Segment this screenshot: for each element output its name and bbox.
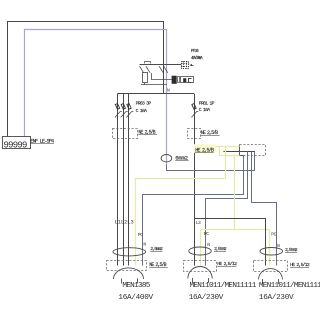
svg-text:PC: PC: [204, 231, 209, 237]
svg-text:PR63 3P: PR63 3P: [136, 100, 152, 106]
svg-text:C 16A: C 16A: [199, 107, 211, 113]
svg-text:MEN11011/MEN11111: MEN11011/MEN11111: [190, 282, 257, 290]
svg-text:2,5mm2: 2,5mm2: [285, 247, 298, 253]
svg-text:2,5mm2: 2,5mm2: [150, 246, 163, 252]
svg-text:HE 2,5/12: HE 2,5/12: [290, 262, 310, 268]
svg-text:PC: PC: [138, 232, 143, 238]
svg-text:PR61 1P: PR61 1P: [199, 101, 215, 107]
svg-text:PC: PC: [271, 231, 276, 237]
svg-text:16A/400V: 16A/400V: [118, 294, 153, 302]
svg-text:NE 2,5/B: NE 2,5/B: [201, 130, 218, 136]
svg-text:16A/230V: 16A/230V: [259, 294, 294, 302]
svg-text:C 16A: C 16A: [136, 108, 148, 114]
svg-text:99999: 99999: [3, 140, 27, 151]
svg-text:MEN1385: MEN1385: [122, 282, 150, 290]
svg-text:ENF LE-SP4: ENF LE-SP4: [30, 139, 54, 145]
svg-text:16A/230V: 16A/230V: [189, 294, 224, 302]
svg-text:L3: L3: [196, 220, 201, 226]
svg-text:L1L2L3: L1L2L3: [115, 220, 134, 226]
svg-text:MEN11011/MEN11111: MEN11011/MEN11111: [259, 282, 320, 290]
svg-text:40A/30mA: 40A/30mA: [191, 56, 203, 61]
